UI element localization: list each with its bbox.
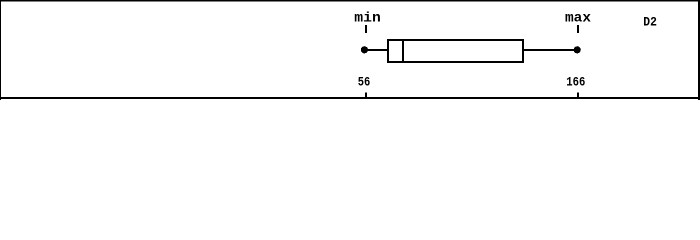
box — [388, 40, 523, 62]
svg-text:166: 166 — [566, 75, 585, 90]
bottom tick at max — [577, 93, 579, 98]
svg-text:min: min — [354, 12, 381, 27]
frame right border — [698, 0, 700, 100]
tick below min — [365, 25, 367, 33]
wire from box to max dot — [523, 49, 575, 51]
svg-text:D2: D2 — [643, 14, 657, 29]
min dot — [361, 46, 368, 53]
frame bottom border — [0, 97, 700, 99]
tick below max — [577, 25, 579, 33]
max dot — [574, 46, 581, 53]
frame left border — [0, 0, 1, 100]
svg-text:max: max — [565, 12, 591, 27]
box divider — [402, 39, 404, 63]
frame top border — [0, 0, 700, 2]
wire from min dot to box — [366, 49, 388, 51]
svg-text:56: 56 — [358, 75, 371, 90]
bottom tick at min — [365, 93, 367, 98]
